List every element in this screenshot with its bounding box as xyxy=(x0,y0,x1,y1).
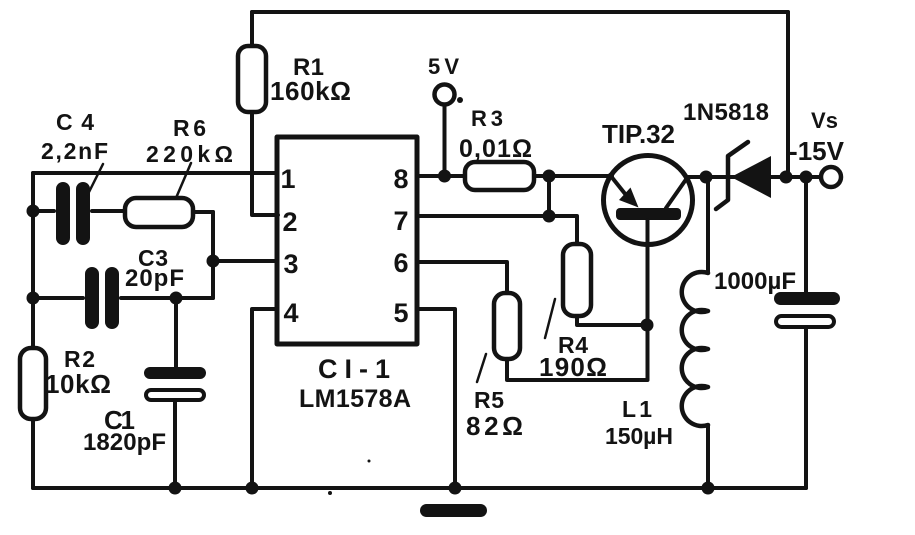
label R1 160kΩ xyxy=(270,54,351,106)
svg-text:Vs: Vs xyxy=(811,108,838,133)
svg-text:4: 4 xyxy=(283,298,298,328)
wire R6/C3 junction vertical xyxy=(211,212,215,298)
svg-text:2,2nF: 2,2nF xyxy=(41,138,108,164)
junction node R3 out xyxy=(543,170,556,183)
wire left rail upper xyxy=(31,173,35,348)
svg-text:1820pF: 1820pF xyxy=(83,429,166,456)
svg-text:5: 5 xyxy=(393,298,408,328)
svg-text:R3: R3 xyxy=(471,106,503,131)
wire left rail lower xyxy=(31,419,35,488)
wire pin3 xyxy=(213,259,277,263)
svg-text:220kΩ: 220kΩ xyxy=(146,141,233,167)
ic U1 CI-1 LM1578A xyxy=(277,137,417,344)
svg-text:10kΩ: 10kΩ xyxy=(45,369,111,399)
label C4 2,2nF xyxy=(41,109,108,164)
svg-text:1000µF: 1000µF xyxy=(714,268,796,295)
svg-text:6: 6 xyxy=(393,248,408,278)
svg-text:LM1578A: LM1578A xyxy=(299,385,411,413)
wire pin1 to left rail xyxy=(33,171,277,175)
capacitor C1 xyxy=(144,298,206,488)
wire right drop from top rail to Vs node xyxy=(786,12,790,175)
junction node pin3 xyxy=(207,255,220,268)
leader line C4 xyxy=(88,164,103,194)
diode D1 1N5818 xyxy=(716,142,771,209)
label R5 82Ω xyxy=(466,387,523,441)
svg-text:L1: L1 xyxy=(622,396,652,422)
svg-text:3: 3 xyxy=(283,249,298,279)
capacitor C4 xyxy=(33,189,125,238)
resistor R2 xyxy=(20,348,46,419)
terminal Vs -15V xyxy=(821,167,841,187)
leader line R6 xyxy=(176,163,191,198)
leader line R5 xyxy=(477,354,486,382)
wire pin5 xyxy=(417,309,455,488)
resistor R6 xyxy=(125,198,213,227)
junction node pin7 xyxy=(543,210,556,223)
capacitor C2 1000µF xyxy=(774,177,840,488)
wire R3 out to pin7 xyxy=(547,176,551,216)
svg-text:-15V: -15V xyxy=(789,136,845,166)
svg-text:R5: R5 xyxy=(474,387,504,413)
leader line R4 xyxy=(545,299,555,338)
label L1 150µH xyxy=(605,396,673,449)
speck below IC xyxy=(328,491,332,495)
resistor R5 xyxy=(494,293,647,380)
wire top rail xyxy=(252,10,788,14)
svg-text:7: 7 xyxy=(393,206,408,236)
svg-text:190Ω: 190Ω xyxy=(539,352,607,382)
junction node left rail / C4 xyxy=(27,205,40,218)
svg-text:20pF: 20pF xyxy=(125,265,184,292)
resistor R1 xyxy=(238,12,278,215)
terminal 5V xyxy=(435,85,455,177)
label R2 10kΩ xyxy=(45,346,111,399)
junction node left rail / C3 xyxy=(27,292,40,305)
wire pin8 to R3 xyxy=(417,174,465,178)
junction node C2/output xyxy=(800,171,813,184)
svg-text:150µH: 150µH xyxy=(605,423,673,449)
svg-text:0,01Ω: 0,01Ω xyxy=(459,135,532,163)
label C3 20pF xyxy=(125,245,184,292)
junction node R4/base xyxy=(641,319,654,332)
wire pin6 to R5 xyxy=(417,262,507,293)
wire pin7 xyxy=(417,216,577,244)
junction node pin4/bottom rail xyxy=(246,482,259,495)
transistor Q1 TIP32 xyxy=(604,156,693,381)
resistor R3 xyxy=(465,162,612,190)
label R4 190Ω xyxy=(539,332,607,382)
inductor L1 xyxy=(682,177,708,488)
svg-text:R6: R6 xyxy=(173,115,206,141)
junction node top-rail/output xyxy=(780,171,793,184)
junction node L1 tap xyxy=(700,171,713,184)
svg-text:8: 8 xyxy=(393,164,408,194)
svg-text:C 4: C 4 xyxy=(56,109,94,135)
junction node 5V/pin8 xyxy=(438,170,451,183)
junction node C3/C1 xyxy=(170,292,183,305)
svg-text:1: 1 xyxy=(280,164,295,194)
label R6 220kΩ xyxy=(146,115,233,167)
svg-text:1N5818: 1N5818 xyxy=(683,99,769,126)
wire bottom rail xyxy=(33,486,806,490)
label C1 1820pF xyxy=(83,405,166,456)
svg-text:CI-1: CI-1 xyxy=(318,354,390,384)
svg-text:2: 2 xyxy=(282,207,297,237)
capacitor C3 xyxy=(33,274,213,322)
ground xyxy=(420,504,487,517)
wire Q1 collector to output xyxy=(687,175,821,179)
dot after 5V terminal xyxy=(457,97,463,103)
svg-text:5V: 5V xyxy=(428,54,459,79)
junction node L1/bottom rail xyxy=(702,482,715,495)
resistor R4 xyxy=(563,244,647,325)
wire pin4 xyxy=(252,309,277,488)
speck near ground xyxy=(368,460,371,463)
label R3 0,01Ω xyxy=(459,106,532,163)
junction node ground xyxy=(449,482,462,495)
svg-text:160kΩ: 160kΩ xyxy=(270,76,351,106)
junction node C1/bottom rail xyxy=(169,482,182,495)
svg-text:82Ω: 82Ω xyxy=(466,411,523,441)
svg-text:TIP.32: TIP.32 xyxy=(602,119,675,149)
